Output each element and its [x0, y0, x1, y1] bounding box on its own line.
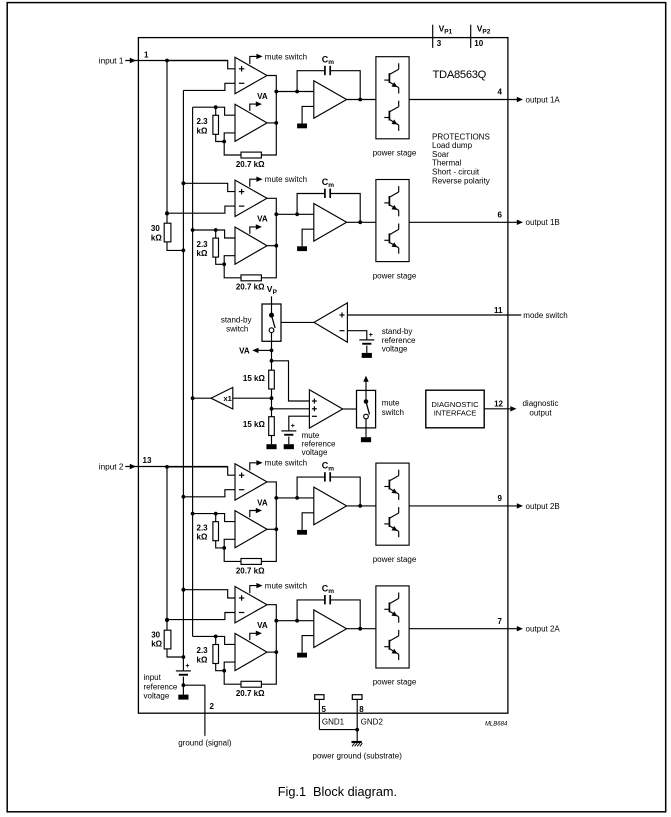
svg-text:power ground (substrate): power ground (substrate): [313, 751, 403, 760]
svg-text:kΩ: kΩ: [151, 233, 162, 242]
svg-text:2.3: 2.3: [197, 523, 209, 532]
svg-text:kΩ: kΩ: [197, 656, 208, 665]
svg-text:P1: P1: [444, 28, 452, 35]
svg-text:power stage: power stage: [373, 149, 417, 158]
svg-text:20.7 kΩ: 20.7 kΩ: [236, 160, 265, 169]
svg-text:x1: x1: [224, 394, 232, 403]
svg-text:stand-by: stand-by: [221, 315, 252, 324]
svg-text:Short - circuit: Short - circuit: [432, 168, 480, 177]
svg-text:+: +: [369, 332, 373, 339]
svg-text:voltage: voltage: [382, 344, 408, 353]
svg-text:2.3: 2.3: [197, 646, 209, 655]
svg-text:+: +: [185, 663, 189, 670]
svg-text:VA: VA: [257, 621, 268, 630]
svg-text:input: input: [144, 673, 162, 682]
svg-text:switch: switch: [382, 408, 404, 417]
svg-text:INTERFACE: INTERFACE: [434, 409, 477, 418]
svg-text:ground (signal): ground (signal): [178, 738, 232, 747]
svg-text:input 2: input 2: [99, 462, 124, 471]
svg-text:m: m: [328, 465, 334, 472]
svg-text:30: 30: [151, 224, 160, 233]
svg-text:Soar: Soar: [432, 150, 449, 159]
svg-text:7: 7: [498, 617, 503, 626]
svg-text:GND1: GND1: [322, 717, 345, 726]
svg-text:voltage: voltage: [144, 691, 170, 700]
svg-text:input 1: input 1: [99, 56, 124, 65]
svg-text:Load dump: Load dump: [432, 141, 473, 150]
svg-text:20.7 kΩ: 20.7 kΩ: [236, 689, 265, 698]
svg-text:mute switch: mute switch: [265, 175, 307, 184]
svg-text:2.3: 2.3: [197, 117, 209, 126]
svg-text:10: 10: [474, 39, 483, 48]
svg-text:4: 4: [498, 88, 503, 97]
svg-text:2.3: 2.3: [197, 240, 209, 249]
svg-text:kΩ: kΩ: [197, 533, 208, 542]
svg-text:12: 12: [494, 400, 503, 409]
svg-text:reference: reference: [144, 682, 178, 691]
svg-text:m: m: [328, 182, 334, 189]
svg-text:2: 2: [210, 702, 215, 711]
svg-text:kΩ: kΩ: [151, 640, 162, 649]
svg-text:3: 3: [437, 39, 442, 48]
svg-text:VA: VA: [257, 215, 268, 224]
svg-text:20.7 kΩ: 20.7 kΩ: [236, 283, 265, 292]
svg-text:power stage: power stage: [373, 678, 417, 687]
svg-text:TDA8563Q: TDA8563Q: [433, 69, 487, 81]
svg-text:m: m: [328, 588, 334, 595]
svg-text:Thermal: Thermal: [432, 159, 462, 168]
svg-text:Fig.1 Block diagram.: Fig.1 Block diagram.: [278, 785, 397, 799]
svg-text:11: 11: [494, 306, 503, 315]
svg-text:5: 5: [322, 705, 327, 714]
svg-text:power stage: power stage: [373, 555, 417, 564]
svg-text:30: 30: [151, 630, 160, 639]
svg-text:15 kΩ: 15 kΩ: [243, 374, 266, 383]
svg-text:output 1B: output 1B: [526, 218, 560, 227]
svg-text:PROTECTIONS: PROTECTIONS: [432, 132, 490, 141]
svg-text:VA: VA: [239, 346, 250, 355]
svg-text:20.7 kΩ: 20.7 kΩ: [236, 566, 265, 575]
svg-text:output: output: [529, 408, 552, 417]
svg-text:8: 8: [359, 705, 364, 714]
svg-text:VA: VA: [257, 498, 268, 507]
svg-text:mute: mute: [382, 398, 400, 407]
svg-text:P2: P2: [482, 28, 490, 35]
svg-text:diagnostic: diagnostic: [522, 399, 558, 408]
svg-text:mute switch: mute switch: [265, 582, 307, 591]
svg-text:kΩ: kΩ: [197, 126, 208, 135]
svg-text:voltage: voltage: [302, 448, 328, 457]
svg-text:VA: VA: [257, 92, 268, 101]
svg-text:13: 13: [143, 456, 152, 465]
svg-text:9: 9: [498, 494, 503, 503]
svg-text:15 kΩ: 15 kΩ: [243, 420, 266, 429]
svg-text:mute: mute: [302, 431, 320, 440]
svg-text:output 2B: output 2B: [526, 502, 560, 511]
svg-text:1: 1: [144, 51, 149, 60]
svg-text:mode switch: mode switch: [523, 311, 567, 320]
svg-text:GND2: GND2: [361, 717, 384, 726]
svg-text:MLB684: MLB684: [485, 722, 508, 728]
svg-text:output 2A: output 2A: [526, 625, 561, 634]
svg-text:Reverse polarity: Reverse polarity: [432, 176, 490, 185]
svg-text:P: P: [273, 289, 278, 296]
svg-text:m: m: [328, 59, 334, 66]
svg-text:mute switch: mute switch: [265, 459, 307, 468]
svg-text:kΩ: kΩ: [197, 249, 208, 258]
svg-text:+: +: [291, 423, 295, 430]
svg-text:6: 6: [498, 210, 503, 219]
svg-text:switch: switch: [226, 324, 248, 333]
svg-text:output 1A: output 1A: [526, 95, 561, 104]
svg-text:power stage: power stage: [373, 271, 417, 280]
svg-text:mute switch: mute switch: [265, 52, 307, 61]
